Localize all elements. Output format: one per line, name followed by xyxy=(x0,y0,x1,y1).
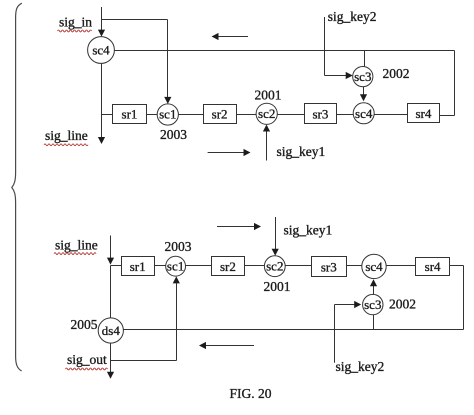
svg-text:sr4: sr4 xyxy=(425,259,441,274)
svg-text:sig_out: sig_out xyxy=(67,352,107,367)
svg-text:sc4: sc4 xyxy=(92,43,110,58)
svg-text:sc2: sc2 xyxy=(266,259,283,274)
svg-text:sig_in: sig_in xyxy=(59,15,92,30)
svg-text:sc3: sc3 xyxy=(354,69,371,84)
svg-text:sr1: sr1 xyxy=(122,107,138,122)
svg-text:2002: 2002 xyxy=(383,66,410,81)
svg-text:sc1: sc1 xyxy=(159,107,176,122)
svg-text:sr3: sr3 xyxy=(312,106,328,121)
svg-text:sc1: sc1 xyxy=(167,259,184,274)
svg-text:sr3: sr3 xyxy=(321,259,337,274)
svg-text:FIG. 20: FIG. 20 xyxy=(230,386,272,401)
svg-text:sr4: sr4 xyxy=(415,106,431,121)
svg-text:sc4: sc4 xyxy=(365,259,383,274)
svg-text:sr2: sr2 xyxy=(220,259,236,274)
svg-text:sr2: sr2 xyxy=(212,107,228,122)
svg-text:sig_key1: sig_key1 xyxy=(277,144,326,159)
svg-text:sr1: sr1 xyxy=(130,259,146,274)
svg-text:2002: 2002 xyxy=(389,297,416,312)
svg-text:2003: 2003 xyxy=(160,127,187,142)
svg-text:sig_line: sig_line xyxy=(45,128,88,143)
svg-text:sc2: sc2 xyxy=(258,106,275,121)
svg-text:2005: 2005 xyxy=(71,317,98,332)
svg-text:sc4: sc4 xyxy=(355,106,373,121)
svg-text:sig_key2: sig_key2 xyxy=(328,9,377,24)
svg-text:sig_line: sig_line xyxy=(55,238,98,253)
svg-text:sc3: sc3 xyxy=(364,297,381,312)
svg-text:ds4: ds4 xyxy=(102,323,121,338)
svg-text:sig_key1: sig_key1 xyxy=(284,223,333,238)
svg-text:2001: 2001 xyxy=(255,87,282,102)
svg-text:2003: 2003 xyxy=(165,239,192,254)
svg-text:sig_key2: sig_key2 xyxy=(336,359,385,374)
svg-text:2001: 2001 xyxy=(264,279,291,294)
